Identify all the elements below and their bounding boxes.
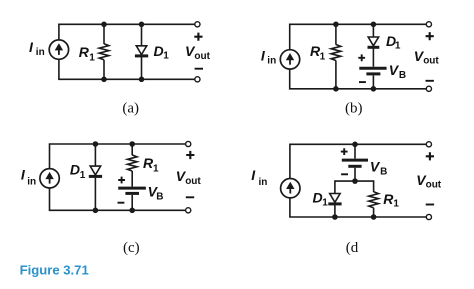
svg-text:out: out [426,180,442,191]
wire (d) split horizontal [335,180,374,182]
wire (b) top rail [290,24,427,49]
wire (a) R1 branch bottom [103,60,105,80]
svg-text:out: out [423,56,439,67]
svg-text:(b): (b) [345,100,363,116]
plus sign battery (c) [118,177,125,184]
node dot (b) top D1 [371,22,377,28]
wire (a) R1 branch top [103,24,105,44]
node dot (d) bottom D1 [332,214,338,220]
node dot (c) bottom battery [129,208,135,214]
node dot (b) top R1 [333,22,339,28]
svg-text:B: B [380,166,387,177]
wire (d) top rail [290,144,426,178]
svg-text:1: 1 [89,52,95,63]
wire (c) D1 branch top [94,144,96,166]
node dot (a) bottom R1 [101,77,107,83]
wire (d) battery to split node [354,168,356,181]
plus sign (d) output [426,152,434,160]
battery VB (b) long plate [359,67,386,70]
diode D1 (d) [328,194,341,204]
battery VB (c) short plate [125,192,139,195]
svg-text:R: R [79,44,90,60]
terminal (d) bottom [426,214,431,219]
node dot (b) bottom R1 [333,86,339,92]
svg-text:B: B [156,191,163,202]
minus sign battery (b) [359,81,366,83]
battery VB (c) long plate [118,187,146,190]
diode D1 (a) [135,46,148,56]
wire (c) R1 branch top [131,144,133,155]
wire (b) battery to bottom [372,75,374,88]
node dot (a) top R1 [101,22,107,28]
terminal (d) top [426,142,431,147]
wire (c) D1 branch bottom [94,176,96,210]
minus sign (b) output [426,80,434,82]
wire (d) bottom rail [290,198,426,217]
diode D1 (c) [89,166,102,176]
node dot (d) split [352,178,358,184]
node dot (c) top R1 [129,141,135,147]
plus sign (b) output [426,32,434,40]
battery VB (d) short plate [348,165,361,168]
svg-text:B: B [399,70,406,81]
resistor R1 (a) [99,44,109,60]
svg-text:out: out [185,176,201,187]
minus sign (d) output [426,204,434,206]
diode D1 (b) [368,37,380,47]
svg-text:D: D [313,190,323,206]
wire (b) R1 branch bottom [335,61,337,89]
svg-text:in: in [27,177,36,188]
svg-text:out: out [194,51,210,62]
svg-text:in: in [36,47,45,58]
resistor R1 (c) [127,155,137,171]
svg-text:in: in [259,177,268,188]
current source Iin (d) [281,179,300,198]
terminal (b) top [426,22,431,27]
minus sign (a) output [195,68,203,70]
node dot (c) top D1 [93,141,99,147]
minus sign battery (d) [341,173,348,175]
terminal (a) top [195,22,200,27]
svg-text:1: 1 [163,51,169,62]
svg-text:(d: (d [346,240,359,256]
resistor R1 (b) [331,45,341,61]
svg-text:(a): (a) [122,101,139,117]
wire (b) D1 to battery [372,47,374,66]
terminal (c) bottom [186,208,191,213]
current source Iin (a) [49,40,68,59]
wire (b) D1 branch top [372,24,374,37]
svg-text:1: 1 [80,170,86,181]
wire (d) D1 branch top [334,180,336,193]
svg-text:1: 1 [320,51,326,62]
current source Iin (c) [40,169,59,188]
svg-text:1: 1 [153,164,159,175]
wire (b) bottom rail [290,69,427,89]
wire (c) bottom rail [50,188,186,210]
wire (c) R1 to battery [131,171,133,187]
plus sign (c) output [186,151,194,159]
node dot (d) bottom R1 [371,214,377,220]
svg-text:D: D [154,43,164,59]
node dot (a) top D1 [139,22,145,28]
node dot (b) bottom battery [371,86,377,92]
terminal (b) bottom [426,86,431,91]
wire (d) R1 branch top [373,180,375,192]
minus sign battery (c) [118,202,125,204]
wire (a) D1 branch bottom [141,57,143,80]
svg-text:1: 1 [395,41,401,52]
wire (c) top rail [50,144,186,169]
wire (d) battery branch top [354,144,356,158]
node dot (a) bottom D1 [139,77,145,83]
wire (d) R1 branch bottom [373,208,375,217]
wire (b) R1 branch top [335,24,337,44]
wire (a) D1 branch top [141,24,143,46]
resistor R1 (d) [369,192,379,208]
node dot (d) top battery [352,142,358,148]
minus sign (c) output [186,196,194,198]
battery VB (b) short plate [366,72,380,75]
svg-text:Figure 3.71: Figure 3.71 [20,263,89,278]
battery VB (d) long plate [342,159,368,162]
terminal (c) top [186,141,191,146]
current source Iin (b) [280,50,299,69]
node dot (c) bottom D1 [93,208,99,214]
svg-text:1: 1 [393,199,399,210]
terminal (a) bottom [195,77,200,82]
plus sign battery (b) [358,54,365,61]
svg-text:(c): (c) [123,240,140,256]
wire (a) bottom rail [59,59,195,79]
wire (a) top rail [59,24,195,40]
wire (c) battery to bottom [131,195,133,210]
svg-text:in: in [267,56,276,67]
svg-text:D: D [70,162,80,178]
wire (d) D1 branch bottom [334,204,336,217]
plus sign (a) output [194,33,202,41]
plus sign battery (d) [341,148,348,155]
svg-text:1: 1 [322,197,328,208]
